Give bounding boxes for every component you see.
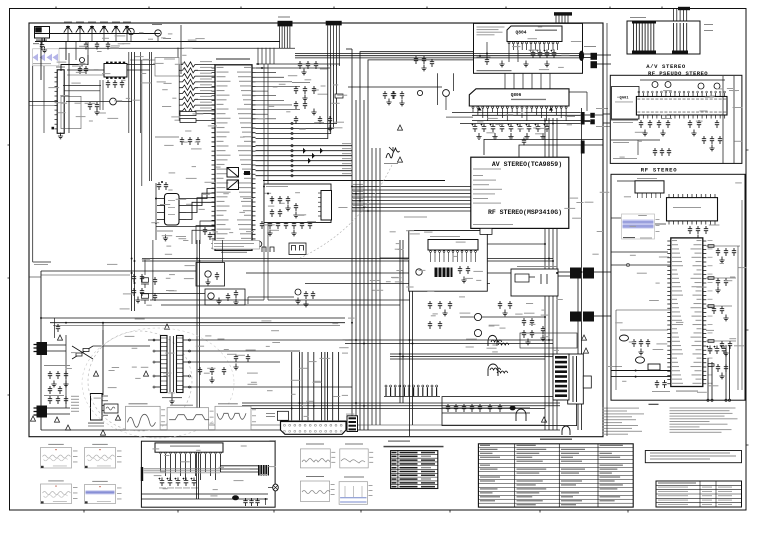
ground xyxy=(709,145,714,151)
wire xyxy=(595,114,603,116)
resistor xyxy=(708,277,714,280)
label text xyxy=(561,449,585,450)
warning symbol xyxy=(30,416,35,421)
wire xyxy=(134,52,136,311)
resistor ladder R201-R209 (zigzag) xyxy=(180,62,199,67)
label text xyxy=(210,416,214,419)
wire xyxy=(558,271,570,273)
label text xyxy=(88,22,96,23)
label text xyxy=(71,399,79,400)
label text xyxy=(600,457,621,458)
connector P805 xyxy=(678,7,690,10)
label text xyxy=(421,463,435,465)
wire xyxy=(79,34,81,42)
resistor xyxy=(142,294,149,299)
resistor xyxy=(180,112,196,116)
warning symbol xyxy=(93,371,98,376)
label text xyxy=(517,496,533,497)
label text xyxy=(477,70,512,71)
label text xyxy=(561,473,579,474)
sub-box speaker out xyxy=(442,397,577,426)
capacitor xyxy=(286,196,290,204)
connector P102 xyxy=(278,21,293,27)
wire xyxy=(611,217,621,219)
wire xyxy=(68,53,70,133)
wire xyxy=(611,264,671,266)
wire xyxy=(333,25,335,66)
tall box right xyxy=(568,354,584,404)
capacitor xyxy=(422,56,426,64)
capacitor xyxy=(632,339,636,347)
wire xyxy=(265,48,267,64)
label text xyxy=(117,461,122,464)
label text xyxy=(600,500,615,501)
label text xyxy=(353,198,363,199)
label text xyxy=(480,496,500,497)
wire xyxy=(603,113,610,115)
signal flow arrows (blue) xyxy=(33,49,60,66)
ground xyxy=(719,257,724,263)
wire xyxy=(611,119,638,121)
wire xyxy=(299,352,301,420)
transistor Q207 xyxy=(208,293,214,299)
warning symbol xyxy=(581,335,586,340)
transistor xyxy=(416,269,422,275)
wire xyxy=(352,196,472,198)
crystal QB04 xyxy=(648,364,660,370)
wire xyxy=(47,413,70,415)
ground xyxy=(301,69,306,75)
label text xyxy=(602,419,636,420)
label text xyxy=(670,429,732,430)
wire xyxy=(67,74,104,76)
ground xyxy=(311,109,316,115)
label text xyxy=(650,459,710,460)
wire xyxy=(482,316,545,318)
label text xyxy=(658,486,688,489)
label text xyxy=(421,471,435,473)
ground xyxy=(51,381,56,387)
wire xyxy=(318,206,321,208)
label text xyxy=(117,450,122,453)
wire xyxy=(196,452,198,499)
ground xyxy=(524,133,529,139)
resistor xyxy=(708,340,714,343)
capacitor xyxy=(648,120,652,128)
label text xyxy=(210,422,214,425)
label text xyxy=(342,153,351,154)
label text xyxy=(306,444,324,445)
resistor xyxy=(708,364,714,367)
wire xyxy=(222,240,224,262)
wire xyxy=(522,73,524,88)
ground xyxy=(386,99,391,105)
label text xyxy=(392,456,397,458)
label text xyxy=(161,414,165,417)
label text xyxy=(64,22,72,23)
label text xyxy=(670,421,710,422)
wire xyxy=(152,240,154,300)
label text xyxy=(266,186,288,187)
wire xyxy=(583,53,591,55)
label text xyxy=(561,484,576,485)
label text xyxy=(331,488,335,491)
connector P103 xyxy=(326,21,342,26)
wire xyxy=(263,180,445,182)
ground xyxy=(327,125,332,131)
capacitor xyxy=(56,324,60,332)
arch symbol xyxy=(488,364,498,376)
label text xyxy=(331,461,335,464)
capacitor xyxy=(284,221,288,229)
capacitor xyxy=(243,498,247,506)
wire xyxy=(55,123,58,125)
capacitor xyxy=(298,61,302,69)
wire xyxy=(256,95,277,97)
wire xyxy=(256,90,269,92)
capacitor xyxy=(318,116,322,124)
capacitor xyxy=(157,182,161,190)
capacitor xyxy=(270,196,274,204)
capacitor xyxy=(383,91,387,99)
connector CN402 xyxy=(347,416,358,432)
sub-circuit box (sound trap) xyxy=(264,184,331,223)
IC X101 (SIF filter) xyxy=(57,70,64,134)
wire xyxy=(256,63,340,65)
resistor xyxy=(708,305,714,308)
ground xyxy=(42,47,47,53)
wire xyxy=(55,109,58,111)
connector blocks xyxy=(570,268,581,279)
wire xyxy=(617,180,635,182)
wire xyxy=(263,64,265,300)
wire xyxy=(65,42,67,61)
warning symbol xyxy=(143,371,148,376)
wire xyxy=(141,60,143,186)
bead xyxy=(510,406,516,411)
svg-text:RF STEREO: RF STEREO xyxy=(641,167,678,174)
wire xyxy=(548,118,550,430)
label text xyxy=(608,366,622,367)
capacitor xyxy=(203,227,207,235)
wire xyxy=(29,276,41,278)
IC X801 (audio amp) xyxy=(155,443,223,452)
label text xyxy=(163,38,171,39)
wire xyxy=(706,277,736,279)
capacitor xyxy=(660,148,664,156)
wire xyxy=(198,87,215,89)
capacitor xyxy=(438,321,442,329)
ground xyxy=(638,349,643,355)
wire xyxy=(380,257,409,259)
label text xyxy=(658,494,688,497)
label text xyxy=(53,500,67,503)
label text xyxy=(97,465,111,468)
resonator Z301 xyxy=(435,268,453,278)
wire xyxy=(442,412,530,414)
label text xyxy=(652,391,670,392)
label text xyxy=(477,57,491,58)
wire xyxy=(189,386,353,388)
label text xyxy=(266,413,275,414)
regulator IC X401 xyxy=(91,394,103,421)
warning symbol xyxy=(583,348,588,353)
IC IC201 TDA8843 (main jungle IC) xyxy=(215,65,252,251)
junction xyxy=(131,272,133,274)
capacitor xyxy=(458,266,462,274)
label text xyxy=(216,58,250,59)
label text xyxy=(369,456,373,459)
wire xyxy=(256,67,269,69)
capacitor xyxy=(40,42,44,50)
wire xyxy=(144,470,220,472)
wire xyxy=(711,362,713,400)
wire xyxy=(611,139,660,141)
wire xyxy=(273,48,275,64)
label text xyxy=(400,463,418,465)
wire xyxy=(264,304,400,306)
label text xyxy=(480,445,490,446)
wire xyxy=(583,57,591,59)
wire xyxy=(198,452,200,499)
wire xyxy=(637,193,639,198)
ground xyxy=(691,130,696,136)
label text xyxy=(480,480,495,481)
capacitor (electrolytic) xyxy=(167,478,173,487)
wire xyxy=(620,329,668,331)
transistor xyxy=(665,82,671,88)
wire xyxy=(150,424,545,426)
wire xyxy=(256,85,301,87)
junction xyxy=(635,376,637,378)
wire staircase IC to FL201 xyxy=(186,189,215,199)
label text xyxy=(392,463,397,465)
wire xyxy=(558,275,570,277)
capacitor xyxy=(56,396,60,404)
wire xyxy=(256,67,330,69)
ground xyxy=(399,100,404,106)
label text xyxy=(602,434,628,435)
oscillogram (blue trace) xyxy=(622,214,655,239)
capacitor (electrolytic) xyxy=(721,346,727,355)
label text xyxy=(656,230,660,233)
wire xyxy=(256,104,293,106)
warning symbol xyxy=(397,157,402,162)
label text xyxy=(511,99,546,100)
label text xyxy=(369,494,373,497)
IC201 internal no-connect symbols xyxy=(227,168,239,190)
capacitor xyxy=(541,326,545,334)
wire xyxy=(55,95,58,97)
wire xyxy=(257,48,259,64)
capacitor xyxy=(639,339,643,347)
capacitor xyxy=(478,404,482,412)
wire xyxy=(267,64,269,300)
label text xyxy=(48,480,64,481)
capacitor xyxy=(84,42,88,50)
wire xyxy=(196,113,215,115)
label text xyxy=(342,163,351,164)
label text xyxy=(600,445,623,446)
wire xyxy=(301,352,303,420)
label text xyxy=(345,444,363,445)
wire xyxy=(220,471,258,473)
capacitor xyxy=(276,221,280,229)
transistor Q807 xyxy=(417,90,422,95)
capacitor xyxy=(448,301,452,309)
wire xyxy=(284,26,286,48)
capacitor xyxy=(428,301,432,309)
wire xyxy=(603,122,610,124)
label text xyxy=(517,457,533,458)
oscillogram W6 xyxy=(41,484,72,504)
wire xyxy=(461,252,463,262)
wire xyxy=(379,148,381,425)
wire xyxy=(130,35,132,42)
wire xyxy=(402,240,404,403)
wire xyxy=(198,69,215,71)
label text xyxy=(161,420,165,423)
capacitor (electrolytic) xyxy=(707,346,713,355)
label text xyxy=(702,503,712,506)
capacitor (electrolytic) xyxy=(472,124,478,133)
ceramic filter X102 xyxy=(104,64,127,78)
wire xyxy=(180,25,182,74)
wire xyxy=(295,55,580,57)
wire xyxy=(390,353,553,355)
capacitor xyxy=(704,226,708,234)
wire xyxy=(199,240,201,410)
capacitor xyxy=(48,371,52,379)
label text xyxy=(392,471,397,473)
label text xyxy=(602,431,642,432)
wire xyxy=(47,344,66,346)
warning symbol xyxy=(115,415,120,420)
label text xyxy=(517,266,557,267)
wire xyxy=(318,201,321,203)
wire xyxy=(198,64,215,66)
capacitor xyxy=(210,367,214,375)
label text xyxy=(117,498,122,501)
ground xyxy=(267,230,272,236)
wire xyxy=(448,252,450,262)
label text xyxy=(168,207,175,208)
capacitor xyxy=(666,120,670,128)
Q806 pins xyxy=(472,106,474,108)
capacitor xyxy=(311,291,315,299)
label text xyxy=(561,480,582,481)
wire xyxy=(256,145,353,147)
capacitor xyxy=(646,339,650,347)
label text xyxy=(517,461,543,462)
capacitor xyxy=(446,404,450,412)
wire xyxy=(102,395,108,397)
capacitor xyxy=(715,120,719,128)
warning symbol xyxy=(54,417,59,422)
label text xyxy=(480,488,498,489)
label text xyxy=(175,487,182,490)
label text xyxy=(600,496,621,497)
wire xyxy=(59,47,295,49)
label text xyxy=(292,82,310,83)
IC201 pins xyxy=(212,68,256,248)
wire xyxy=(66,101,110,103)
ground xyxy=(502,310,507,316)
main schematic frame xyxy=(29,23,603,437)
capacitor xyxy=(710,136,714,144)
label text xyxy=(656,218,660,221)
label text xyxy=(602,428,632,429)
capacitor xyxy=(428,321,432,329)
label text xyxy=(218,403,238,404)
wire xyxy=(155,183,157,240)
wire xyxy=(586,92,588,111)
wire xyxy=(673,9,675,22)
wire xyxy=(603,54,611,56)
label text xyxy=(517,480,543,481)
label text xyxy=(369,451,373,454)
wire xyxy=(504,73,506,88)
wire xyxy=(384,396,440,398)
label box AV/RF STEREO xyxy=(471,157,569,228)
wire xyxy=(256,81,293,83)
wire xyxy=(102,400,108,402)
label text xyxy=(200,96,212,97)
capacitor xyxy=(56,371,60,379)
label text xyxy=(421,475,435,477)
label text xyxy=(167,487,174,490)
label text xyxy=(658,490,688,493)
wire xyxy=(291,352,293,420)
capacitor xyxy=(294,101,298,109)
label text xyxy=(400,478,418,480)
wire xyxy=(487,243,545,245)
capacitor xyxy=(64,371,68,379)
label text xyxy=(676,391,698,392)
ground xyxy=(660,130,665,136)
label text xyxy=(353,208,363,209)
capacitor xyxy=(113,80,117,88)
IC Q804 TDA9410F xyxy=(507,26,562,42)
connector P403 xyxy=(553,354,569,400)
label text xyxy=(168,200,175,201)
wire xyxy=(594,315,603,317)
wire xyxy=(390,358,545,360)
label text xyxy=(702,499,712,502)
ground xyxy=(715,287,720,293)
transistor xyxy=(256,241,262,247)
wire xyxy=(641,193,643,198)
label text xyxy=(602,425,638,426)
capacitor xyxy=(724,364,728,372)
label text xyxy=(400,467,418,469)
label text xyxy=(214,246,244,247)
label text xyxy=(702,486,712,489)
label text xyxy=(392,459,397,461)
wire xyxy=(128,52,130,133)
label text xyxy=(48,444,64,445)
label text xyxy=(388,441,410,442)
label text xyxy=(517,469,547,470)
wire xyxy=(93,345,150,347)
capacitor xyxy=(120,80,124,88)
label text xyxy=(278,17,290,18)
wire xyxy=(508,50,510,62)
svg-text:AV STEREO(TCA9859): AV STEREO(TCA9859) xyxy=(492,161,562,168)
wire xyxy=(40,42,42,81)
wire xyxy=(443,252,445,262)
label text xyxy=(221,252,247,253)
